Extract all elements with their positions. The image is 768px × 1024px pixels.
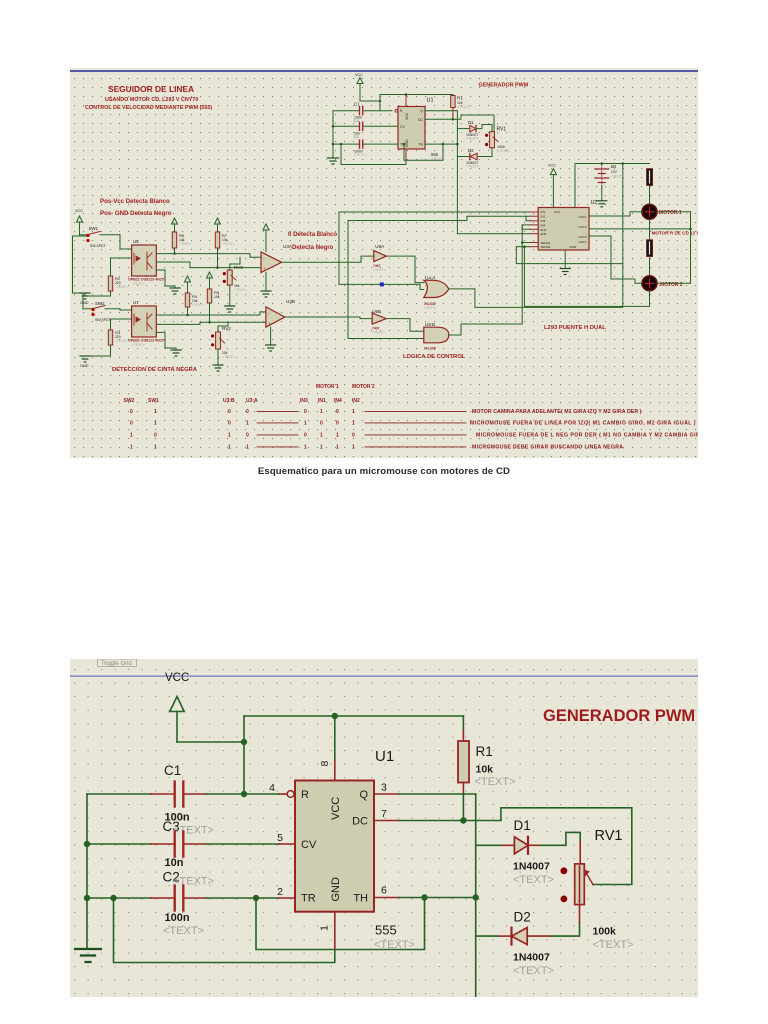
svg-text:CONTROL DE VELOCIDAD MEDIANTE: CONTROL DE VELOCIDAD MEDIANTE PWM (555) xyxy=(85,105,212,111)
wire TH row xyxy=(374,897,399,899)
svg-text:D2: D2 xyxy=(514,910,531,925)
wire sw2 vertical xyxy=(82,293,84,309)
table row 4 xyxy=(130,445,623,451)
svg-text:U1: U1 xyxy=(427,98,434,104)
junction R1/DC xyxy=(460,817,466,823)
wire R3 top to U7 xyxy=(111,319,132,330)
capacitor C2 (pwm) xyxy=(359,140,361,148)
wire pwm rail to EN xyxy=(457,233,530,235)
svg-text:<TEXT>: <TEXT> xyxy=(424,306,437,310)
ground symbol xyxy=(75,949,101,962)
svg-text:1N4007: 1N4007 xyxy=(513,861,550,873)
svg-text:0: 0 xyxy=(246,433,249,439)
svg-text:<TEXT>: <TEXT> xyxy=(132,282,145,286)
svg-text:12V: 12V xyxy=(611,170,618,174)
svg-text:VCC: VCC xyxy=(75,209,83,213)
toolbar tooltip remnant xyxy=(98,659,137,667)
ground (pwm) xyxy=(328,158,339,164)
wire C rows (pwm) xyxy=(333,110,359,112)
svg-text:0: 0 xyxy=(304,409,307,415)
pin 1 GND stub xyxy=(334,912,336,950)
svg-text:OPB22 OU8123 4N25: OPB22 OU8123 4N25 xyxy=(128,278,164,282)
svg-text:USANDO MOTOR CD, L293 V CNY70: USANDO MOTOR CD, L293 V CNY70 xyxy=(105,97,198,103)
fuse F2 xyxy=(647,240,653,257)
svg-text:<TEXT>: <TEXT> xyxy=(373,268,386,272)
pin R bubble xyxy=(287,791,294,798)
svg-text:0: 0 xyxy=(336,409,339,415)
capacitor C3 plates xyxy=(173,832,175,857)
table row 3 xyxy=(130,433,709,439)
svg-text:1: 1 xyxy=(154,445,157,451)
svg-text:0 Detecta Blanco: 0 Detecta Blanco xyxy=(288,231,337,238)
capacitor C1 xyxy=(173,782,175,807)
wire GND loop xyxy=(114,898,335,963)
svg-text:C1: C1 xyxy=(164,763,181,778)
svg-text:+: + xyxy=(268,321,271,326)
wire motor1 to fuse2 xyxy=(649,219,651,239)
svg-text:<TEXT>: <TEXT> xyxy=(115,285,128,289)
wire AND input 2 long xyxy=(348,338,424,340)
wire DC row xyxy=(374,820,399,822)
junction gnd loop xyxy=(110,895,116,901)
svg-text:Q: Q xyxy=(420,109,423,113)
svg-text:10n: 10n xyxy=(165,857,184,869)
svg-text:1: 1 xyxy=(320,433,323,439)
capacitor C3 (pwm) xyxy=(359,122,361,130)
wire right rail xyxy=(475,794,477,997)
svg-text:SW-SPDT: SW-SPDT xyxy=(90,244,106,248)
power VCC symbol (pwm) xyxy=(357,78,363,102)
svg-text:OUT2: OUT2 xyxy=(578,225,586,229)
svg-text:Toggle Grid: Toggle Grid xyxy=(101,661,132,667)
svg-text:MICROMOUSE DEBE GIRAR BUSCANDO: MICROMOUSE DEBE GIRAR BUSCANDO LINEA NEG… xyxy=(472,445,623,451)
svg-text:U1: U1 xyxy=(375,748,394,765)
svg-text:0: 0 xyxy=(130,421,133,427)
svg-text:U3A: U3A xyxy=(283,244,293,249)
svg-text:8: 8 xyxy=(319,761,331,767)
junction xyxy=(241,791,247,797)
svg-text:U3:B: U3:B xyxy=(223,398,235,404)
sheet border line xyxy=(70,70,698,72)
svg-text:<TEXT>: <TEXT> xyxy=(475,776,516,788)
diode D1 xyxy=(476,844,502,846)
svg-text:IN4: IN4 xyxy=(334,398,342,404)
power VCC above R7 xyxy=(215,218,221,232)
svg-text:1: 1 xyxy=(336,445,339,451)
wire U5 bottom to ground xyxy=(156,270,175,288)
svg-text:GND: GND xyxy=(80,364,89,368)
svg-text:U5: U5 xyxy=(133,239,139,244)
svg-text:+: + xyxy=(263,266,266,271)
svg-text:0: 0 xyxy=(228,409,231,415)
wire battery top to rails xyxy=(575,164,650,208)
table row 2 xyxy=(130,421,696,427)
svg-text:1: 1 xyxy=(228,445,231,451)
svg-text:SENS2: SENS2 xyxy=(541,245,551,249)
sheet border line (light blue) xyxy=(70,675,698,677)
pin R bubble (small) xyxy=(395,109,398,112)
wire sw1 to U5 xyxy=(120,235,132,249)
junction xyxy=(332,713,338,719)
pin stubs U2 left xyxy=(530,212,538,247)
svg-text:U3B: U3B xyxy=(286,299,295,304)
svg-text:<TEXT>: <TEXT> xyxy=(222,355,235,359)
wire sw1 to far-left rail xyxy=(73,236,88,293)
svg-text:1: 1 xyxy=(130,433,133,439)
svg-text:U6A: U6A xyxy=(375,244,385,249)
svg-text:Q: Q xyxy=(359,789,368,801)
svg-text:1: 1 xyxy=(336,433,339,439)
wire 555 pin8 xyxy=(334,716,336,760)
pin stub R1 top xyxy=(462,731,464,741)
svg-text:<TEXT>: <TEXT> xyxy=(222,242,235,246)
svg-text:DETECCION DE CINTA NEGRA: DETECCION DE CINTA NEGRA xyxy=(112,367,198,373)
svg-text:1: 1 xyxy=(352,445,355,451)
resistor R1 (pwm) xyxy=(452,95,454,96)
wire battery bottom to ground xyxy=(601,186,603,201)
wire U3A output to buffer U6A xyxy=(282,256,374,262)
resistor R1 xyxy=(458,741,469,783)
svg-text:GND: GND xyxy=(405,139,409,147)
wire D1 to RV1 xyxy=(540,832,580,845)
svg-text:<TEXT>: <TEXT> xyxy=(513,874,554,886)
wire C1 row xyxy=(87,793,151,795)
pin1 gnd loop (pwm) xyxy=(405,149,407,159)
svg-text:1: 1 xyxy=(130,445,133,451)
svg-text:VCC: VCC xyxy=(554,210,561,214)
svg-text:GND: GND xyxy=(330,877,342,902)
screenshot: zoomed PWM generator schematic xyxy=(70,659,698,997)
ground sensor1 xyxy=(80,293,90,299)
diode D2 (pwm) xyxy=(457,156,469,158)
svg-text:CV: CV xyxy=(301,839,317,851)
left rail (pwm) xyxy=(332,111,334,158)
svg-text:OUT1: OUT1 xyxy=(578,215,586,219)
svg-text:B2: B2 xyxy=(611,164,617,169)
svg-text:R1: R1 xyxy=(457,96,463,101)
svg-text:OUT4: OUT4 xyxy=(578,240,586,244)
power VCC symbol sensor1 xyxy=(77,216,83,235)
wire top rail to R1 xyxy=(244,715,463,717)
svg-text:VCC: VCC xyxy=(165,672,189,684)
svg-text:<TEXT>: <TEXT> xyxy=(173,825,214,837)
svg-text:MOTOR 2: MOTOR 2 xyxy=(352,384,375,390)
wire RV3 top xyxy=(230,257,240,270)
motor MOTOR 1 xyxy=(642,204,657,219)
capacitor C2 plates xyxy=(173,886,175,911)
ground under U2 xyxy=(564,250,566,269)
svg-text:74LS08: 74LS08 xyxy=(424,347,436,351)
svg-text:R: R xyxy=(301,789,309,801)
svg-text:<TEXT>: <TEXT> xyxy=(115,339,128,343)
svg-text:MOTOR CAMINA PARA ADELANTE( M1: MOTOR CAMINA PARA ADELANTE( M1 GIRA IZQ … xyxy=(472,409,642,415)
svg-text:MOTOR 1: MOTOR 1 xyxy=(316,384,339,390)
svg-text:1: 1 xyxy=(320,445,323,451)
svg-text:Detecta Negro: Detecta Negro xyxy=(292,244,334,251)
wire RV3 bottom to ground xyxy=(229,285,231,306)
svg-text:SW-SPDT: SW-SPDT xyxy=(95,318,111,322)
svg-text:1: 1 xyxy=(320,409,323,415)
svg-text:3: 3 xyxy=(381,782,387,794)
RV1 handle dots xyxy=(561,867,568,874)
svg-text:RV1: RV1 xyxy=(497,127,507,133)
diode D1 (pwm) xyxy=(457,128,469,130)
wire U6B out xyxy=(386,319,424,332)
pin numbers xyxy=(269,761,387,932)
svg-text:0: 0 xyxy=(246,409,249,415)
wire fuse1 to motor1 xyxy=(649,186,651,205)
svg-text:<TEXT>: <TEXT> xyxy=(513,965,554,977)
potentiometer RV1 xyxy=(575,864,585,905)
wire right rail xyxy=(690,212,692,283)
wire out2 right rail xyxy=(589,228,691,230)
wire left rail xyxy=(86,794,88,949)
svg-text:SW2: SW2 xyxy=(124,398,135,404)
svg-text:<TEXT>: <TEXT> xyxy=(132,343,145,347)
wire vcc to junction xyxy=(177,741,244,743)
svg-text:Pos-Vcc Detecta Blanco: Pos-Vcc Detecta Blanco xyxy=(100,198,170,205)
junction rail/C2 xyxy=(84,895,90,901)
wire under-chip branch xyxy=(516,247,623,264)
svg-text:U7: U7 xyxy=(133,300,139,305)
motor MOTOR 2 xyxy=(642,276,657,291)
svg-text:IN4: IN4 xyxy=(541,224,546,228)
svg-text:IN3: IN3 xyxy=(300,398,308,404)
resistor R7 xyxy=(215,232,219,248)
svg-text:MOTOR 1: MOTOR 1 xyxy=(659,210,682,216)
svg-text:1: 1 xyxy=(246,445,249,451)
junction TH xyxy=(421,894,427,900)
power VCC above R6 xyxy=(172,218,178,232)
wire top rail xyxy=(380,94,453,96)
svg-text:SW2: SW2 xyxy=(95,301,105,306)
diode D2 xyxy=(527,935,550,937)
svg-text:<TEXT>: <TEXT> xyxy=(354,153,367,157)
svg-text:OUT3: OUT3 xyxy=(578,235,586,239)
svg-text:1: 1 xyxy=(304,445,307,451)
svg-text:100n: 100n xyxy=(165,912,190,924)
junction xyxy=(241,739,247,745)
svg-text:0: 0 xyxy=(320,421,323,427)
caption text xyxy=(0,466,768,477)
svg-text:TH: TH xyxy=(418,143,423,147)
wire U5 out row1 to R6 and opamp xyxy=(156,253,250,255)
svg-text:<TEXT>: <TEXT> xyxy=(163,925,204,937)
junction xyxy=(405,93,408,96)
svg-text:7: 7 xyxy=(381,808,387,820)
svg-text:<TEXT>: <TEXT> xyxy=(179,242,192,246)
svg-text:<TEXT>: <TEXT> xyxy=(234,288,247,292)
wire U3B output to buffer U6B xyxy=(285,317,373,319)
wire TH row + loop (pwm) xyxy=(425,143,457,145)
svg-text:1: 1 xyxy=(319,925,331,931)
svg-text:GND: GND xyxy=(80,301,89,305)
wire U7 out row2 xyxy=(156,322,266,324)
svg-text:R1: R1 xyxy=(476,744,493,759)
svg-text:OPB22 OU8123 4N25: OPB22 OU8123 4N25 xyxy=(128,339,164,343)
power VCC above U3A xyxy=(263,224,269,252)
svg-text:0: 0 xyxy=(130,409,133,415)
ground sensor2 xyxy=(80,356,90,362)
svg-text:<TEXT>: <TEXT> xyxy=(374,939,415,951)
power VCC above R4 xyxy=(185,276,191,293)
svg-text:1: 1 xyxy=(352,409,355,415)
wire C2/TR row xyxy=(87,897,151,899)
svg-text:0: 0 xyxy=(154,433,157,439)
svg-text:SEGUIDOR DE LINEA: SEGUIDOR DE LINEA xyxy=(108,84,194,94)
capacitor C1 (pwm) xyxy=(359,107,361,115)
wire vcc jog xyxy=(360,95,380,102)
wire left small branches xyxy=(522,225,530,229)
wire out3 to motor2 xyxy=(589,236,642,283)
wire RV2 top xyxy=(218,322,228,332)
svg-text:<TEXT>: <TEXT> xyxy=(466,137,479,141)
wire U7 bottom to ground xyxy=(156,332,176,350)
svg-text:1: 1 xyxy=(304,421,307,427)
svg-text:TR: TR xyxy=(301,893,316,905)
svg-text:IN1: IN1 xyxy=(318,398,326,404)
wire vertical to R pin row xyxy=(243,716,245,794)
svg-text:4: 4 xyxy=(269,782,275,794)
svg-text:C3: C3 xyxy=(354,119,359,123)
wire Q row + rail down (pwm) xyxy=(425,110,457,112)
junction rail/C3 xyxy=(84,841,90,847)
wire bus row1 xyxy=(339,211,530,213)
svg-text:Pos- GND Detecta Negro: Pos- GND Detecta Negro xyxy=(100,210,172,217)
op 555 U1 (small) xyxy=(398,107,425,150)
svg-text:<TEXT>: <TEXT> xyxy=(372,331,385,335)
wire RV2 bottom to ground xyxy=(217,349,219,365)
svg-text:GENERADOR PWM: GENERADOR PWM xyxy=(479,83,529,89)
svg-text:IN2: IN2 xyxy=(541,215,546,219)
svg-text:DC: DC xyxy=(352,816,368,828)
svg-text:D1: D1 xyxy=(468,120,474,125)
svg-text:IN3: IN3 xyxy=(541,219,546,223)
junction TH rail xyxy=(473,894,479,900)
svg-text:MICROMOUSE FUERA DE LINEA POR: MICROMOUSE FUERA DE LINEA POR IZQ( M1 CA… xyxy=(470,421,696,427)
svg-text:SW1: SW1 xyxy=(89,226,99,231)
wire R3 bottom to ground xyxy=(85,345,111,356)
svg-text:<TEXT>: <TEXT> xyxy=(466,165,479,169)
svg-text:IN2: IN2 xyxy=(352,398,360,404)
svg-text:<TEXT>: <TEXT> xyxy=(457,105,470,109)
wire R2 bottom to ground xyxy=(85,291,111,296)
wire R2 top to U5 xyxy=(111,258,132,276)
svg-text:10k: 10k xyxy=(476,764,494,776)
svg-text:100k: 100k xyxy=(593,926,617,938)
svg-text:SW1: SW1 xyxy=(148,398,159,404)
resistor R2 xyxy=(108,276,112,291)
wire Q row xyxy=(374,793,399,795)
svg-text:MICROMOUSE FUERA DE L NEG POR: MICROMOUSE FUERA DE L NEG POR DER ( M1 N… xyxy=(476,433,698,439)
screenshot: full Proteus schematic (seguidor de linea) xyxy=(70,68,698,458)
wire motor2 bottom loop xyxy=(524,247,649,307)
svg-text:<TEXT>: <TEXT> xyxy=(173,876,214,888)
svg-text:0: 0 xyxy=(352,433,355,439)
power VCC above R5 xyxy=(207,272,213,289)
wire fuse2 to motor2 xyxy=(649,257,651,276)
svg-text:GENERADOR PWM: GENERADOR PWM xyxy=(543,707,695,725)
svg-text:GND: GND xyxy=(569,245,577,249)
wire U6A out xyxy=(386,256,424,283)
ground under RV3 xyxy=(225,306,235,312)
svg-text:VCC: VCC xyxy=(548,164,556,168)
svg-text:0: 0 xyxy=(228,421,231,427)
resistor R3 xyxy=(108,330,112,345)
wire U5 out row2 xyxy=(156,262,261,268)
resistor R4 xyxy=(185,293,189,307)
svg-text:2: 2 xyxy=(277,886,283,898)
svg-text:C1: C1 xyxy=(354,102,360,107)
svg-text:DC: DC xyxy=(418,118,423,122)
svg-text:<TEXT>: <TEXT> xyxy=(593,939,634,951)
svg-text:<TEXT>: <TEXT> xyxy=(192,303,205,307)
ground under U3B xyxy=(270,327,272,345)
svg-text:1: 1 xyxy=(352,421,355,427)
ground under U7 xyxy=(171,350,181,356)
wire R1 top xyxy=(462,716,464,731)
pin 8 stub xyxy=(334,760,336,781)
svg-text:EN2: EN2 xyxy=(541,232,547,236)
svg-text:555: 555 xyxy=(375,923,397,938)
svg-text:1: 1 xyxy=(246,421,249,427)
svg-text:MOTOR R DE CD 12 V: MOTOR R DE CD 12 V xyxy=(652,231,698,236)
svg-text:10k: 10k xyxy=(214,295,220,299)
wire AND out loop xyxy=(449,225,530,335)
svg-text:1: 1 xyxy=(154,409,157,415)
ground under RV2 xyxy=(213,365,223,371)
svg-text:RV3: RV3 xyxy=(234,265,243,270)
svg-text:LOGICA DE CONTROL: LOGICA DE CONTROL xyxy=(403,354,466,360)
svg-text:TH: TH xyxy=(353,893,368,905)
potentiometer RV1 (pwm) xyxy=(490,132,495,148)
wire TH loop down xyxy=(256,898,425,950)
junction th loop xyxy=(253,895,259,901)
svg-text:C2: C2 xyxy=(354,135,359,139)
pin stub R1 bottom xyxy=(462,783,464,795)
svg-text:1: 1 xyxy=(228,433,231,439)
wire C3 row xyxy=(87,843,151,845)
wire DC row (pwm) xyxy=(425,118,453,120)
RV1 wiper arrow xyxy=(587,875,593,885)
svg-text:6: 6 xyxy=(381,885,387,897)
wire out1 to motor1 xyxy=(589,212,642,216)
wire down to R row xyxy=(379,95,381,111)
wire OR input 2 long xyxy=(339,283,420,285)
wire bus row2 xyxy=(348,216,530,220)
resistor R6 xyxy=(172,232,176,248)
svg-text:U5:B: U5:B xyxy=(425,322,435,327)
ground under U3A xyxy=(265,273,267,292)
svg-text:CV: CV xyxy=(400,125,405,129)
wire branch row xyxy=(522,242,530,244)
resistor R5 xyxy=(207,289,211,303)
svg-text:0: 0 xyxy=(304,433,307,439)
wire U7 out row1 to R4 and opamp xyxy=(156,314,260,316)
pin8 stub xyxy=(405,95,407,107)
power VCC symbol driver xyxy=(550,169,556,208)
svg-text:0: 0 xyxy=(336,421,339,427)
svg-text:VCC: VCC xyxy=(355,73,363,77)
svg-text:<TEXT>: <TEXT> xyxy=(611,175,624,179)
svg-text:1: 1 xyxy=(154,421,157,427)
svg-text:VCC: VCC xyxy=(405,112,409,120)
svg-text:D1: D1 xyxy=(514,818,531,833)
svg-text:RV2: RV2 xyxy=(222,326,231,331)
svg-text:1N4007: 1N4007 xyxy=(513,952,550,964)
svg-text:VCC: VCC xyxy=(330,797,342,820)
wire OR out loop xyxy=(449,164,623,308)
